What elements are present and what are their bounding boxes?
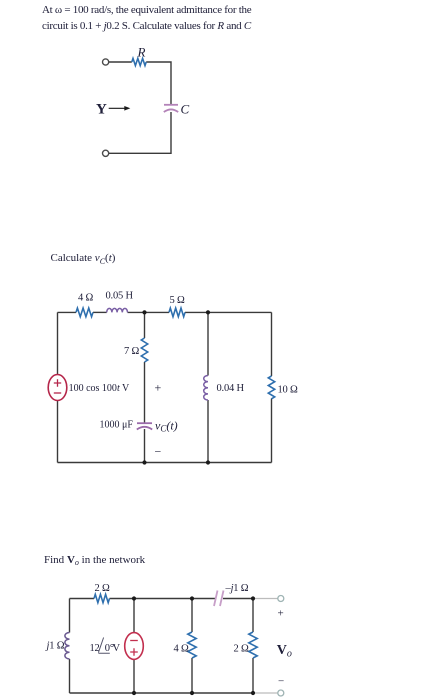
svg-text:0.05 H: 0.05 H <box>106 291 134 302</box>
svg-text:4 Ω: 4 Ω <box>78 293 93 304</box>
svg-text:–j1 Ω: –j1 Ω <box>225 583 249 594</box>
svg-text:0.04 H: 0.04 H <box>217 383 245 394</box>
svg-text:1000 μF: 1000 μF <box>100 420 134 431</box>
svg-text:−: − <box>155 445 162 459</box>
svg-text:4 Ω: 4 Ω <box>174 643 189 654</box>
svg-text:V: V <box>113 643 121 654</box>
svg-text:10 Ω: 10 Ω <box>278 385 299 396</box>
svg-text:−: − <box>278 676 284 688</box>
svg-text:5 Ω: 5 Ω <box>170 295 185 306</box>
svg-text:+: + <box>155 381 162 395</box>
svg-text:7 Ω: 7 Ω <box>124 346 139 357</box>
svg-text:R: R <box>137 45 146 60</box>
svg-text:2 Ω: 2 Ω <box>234 643 249 654</box>
svg-text:100 cos 100t V: 100 cos 100t V <box>69 383 130 394</box>
svg-text:Y: Y <box>96 102 107 118</box>
svg-text:j1 Ω: j1 Ω <box>45 641 65 652</box>
svg-text:vC(t): vC(t) <box>155 419 178 434</box>
svg-text:C: C <box>181 102 190 117</box>
svg-text:+: + <box>278 608 284 620</box>
svg-text:Vo: Vo <box>277 643 292 660</box>
svg-text:2 Ω: 2 Ω <box>95 583 110 594</box>
